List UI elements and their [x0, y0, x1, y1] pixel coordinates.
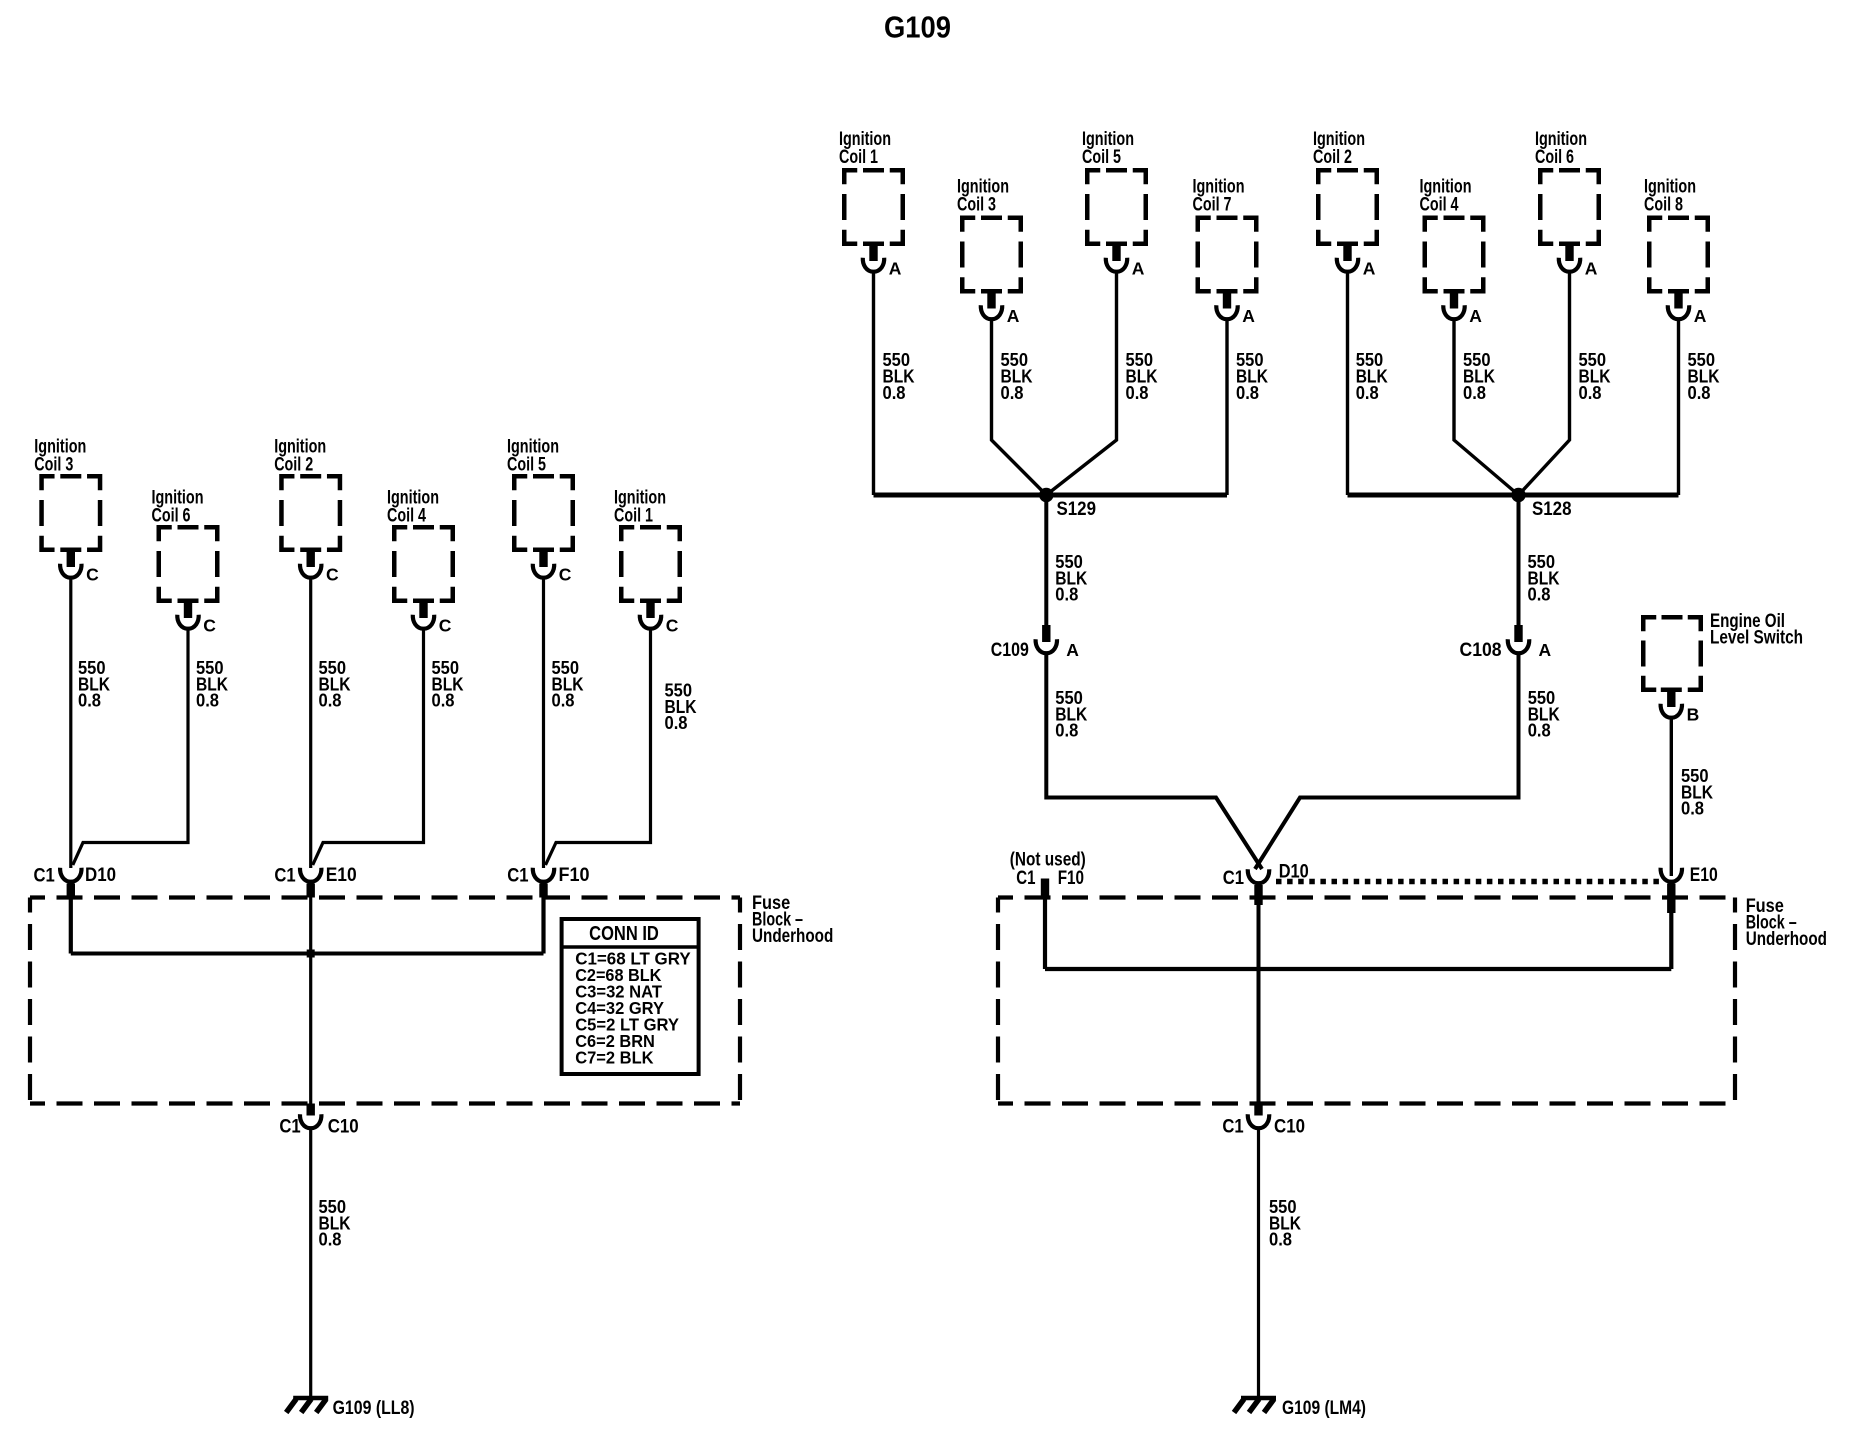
svg-text:Coil 6: Coil 6: [1535, 147, 1574, 168]
engine oil level switch pin stub: [1661, 688, 1682, 693]
ignition coil 1 (right) connector cup: [863, 258, 884, 272]
wire coil6-right to S128 (vertical+diagonal): [1519, 273, 1570, 496]
connector C1 E10 pin stub: [307, 884, 315, 898]
svg-text:Underhood: Underhood: [752, 926, 833, 947]
svg-text:A: A: [1007, 306, 1020, 326]
svg-text:0.8: 0.8: [1236, 382, 1259, 403]
svg-text:S129: S129: [1057, 499, 1097, 520]
svg-text:Coil 5: Coil 5: [1082, 147, 1121, 168]
svg-text:Coil 3: Coil 3: [34, 455, 73, 476]
ignition coil 3 (left) connector cup: [60, 564, 81, 578]
fuse block underhood (right) dashed outline: [998, 895, 1735, 899]
svg-text:E10: E10: [1690, 865, 1718, 886]
svg-text:Coil 2: Coil 2: [1313, 147, 1352, 168]
wire coil3-left to D10 (vertical): [69, 579, 72, 869]
connector C1 F10 pin stub: [539, 884, 547, 898]
ignition coil 7 (right) connector cup: [1216, 305, 1237, 319]
svg-text:Coil 4: Coil 4: [387, 506, 426, 527]
svg-text:C10: C10: [328, 1117, 359, 1138]
svg-text:A: A: [1242, 306, 1255, 326]
connector C1 F10 pin stub (right): [1041, 879, 1049, 900]
svg-text:CONN ID: CONN ID: [589, 923, 659, 945]
ignition coil 3 (left) box: [42, 476, 101, 550]
ground symbol G109 (LL8): [293, 1396, 328, 1401]
wire oil switch to E10: [1670, 716, 1673, 876]
svg-text:0.8: 0.8: [665, 712, 688, 733]
svg-text:A: A: [1469, 306, 1482, 326]
wire coil4-left to E10 (vertical+elbow): [313, 630, 424, 866]
ignition coil 5 (right) connector cup: [1106, 258, 1127, 272]
ignition coil 5 (left) connector cup: [533, 564, 554, 578]
svg-text:C: C: [666, 616, 679, 636]
wire D10 to C10 (inside right fuse block): [1257, 903, 1261, 1104]
svg-text:Level Switch: Level Switch: [1710, 628, 1803, 649]
ignition coil 3 (left) pin stub: [60, 548, 81, 553]
svg-text:Coil 7: Coil 7: [1193, 195, 1232, 216]
svg-text:A: A: [1132, 259, 1145, 279]
svg-text:C108: C108: [1460, 640, 1502, 661]
svg-text:0.8: 0.8: [1528, 584, 1551, 605]
svg-text:F10: F10: [1058, 868, 1084, 889]
svg-text:Coil 1: Coil 1: [839, 147, 878, 168]
connector C1 D10 cup (right fuse block): [1248, 869, 1269, 883]
svg-text:C109: C109: [991, 640, 1029, 661]
ignition coil 6 (right) pin stub: [1559, 242, 1580, 247]
svg-text:0.8: 0.8: [78, 690, 101, 711]
ignition coil 8 (right) connector cup: [1668, 305, 1689, 319]
wire E10 to bus (inside right fuse block): [1669, 909, 1673, 969]
svg-text:Underhood: Underhood: [1746, 929, 1827, 950]
svg-text:0.8: 0.8: [1579, 382, 1602, 403]
ignition coil 3 (right) pin stub: [981, 289, 1002, 294]
wire E10 to C10 (inside left fuse block): [309, 896, 312, 1104]
connector C109 pin stub: [1042, 625, 1050, 642]
ignition coil 8 (right) pin stub: [1668, 289, 1689, 294]
svg-text:Coil 8: Coil 8: [1644, 195, 1683, 216]
ignition coil 2 (left) connector cup: [300, 564, 321, 578]
svg-text:C1: C1: [1222, 1117, 1244, 1138]
ignition coil 8 (right) box: [1649, 218, 1708, 292]
CONN ID table box: [562, 919, 699, 1074]
wire coil5-left to F10 (vertical): [542, 579, 545, 869]
engine oil level switch connector cup: [1661, 704, 1682, 718]
svg-text:0.8: 0.8: [1126, 382, 1149, 403]
connector C108 pin stub: [1514, 625, 1522, 642]
svg-text:A: A: [1694, 306, 1707, 326]
ignition coil 2 (left) pin stub: [300, 548, 321, 553]
ignition coil 4 (left) connector cup: [413, 615, 434, 629]
svg-text:Coil 3: Coil 3: [957, 195, 996, 216]
ignition coil 3 (right) box: [962, 218, 1021, 292]
svg-text:C1: C1: [274, 866, 296, 887]
svg-text:C1: C1: [1016, 868, 1036, 889]
wire C10 to G109 LL8: [309, 1127, 312, 1397]
bus wire inside left fuse block: [71, 952, 544, 956]
connector C1 C10 cup (right): [1248, 1114, 1269, 1128]
svg-text:D10: D10: [85, 865, 116, 886]
wire S129 to C109: [1044, 495, 1048, 626]
svg-text:0.8: 0.8: [1001, 382, 1024, 403]
svg-text:0.8: 0.8: [1055, 720, 1078, 741]
connector C1 E10 cup (right fuse block): [1661, 868, 1682, 882]
ignition coil 5 (right) pin stub: [1106, 242, 1127, 247]
connector C1 D10 pin stub (right): [1254, 885, 1262, 905]
ignition coil 1 (left) connector cup: [640, 615, 661, 629]
svg-text:0.8: 0.8: [1356, 382, 1379, 403]
svg-text:S128: S128: [1532, 499, 1572, 520]
ignition coil 6 (left) box: [159, 527, 218, 601]
wire C108 down to merge: [1255, 652, 1519, 869]
wire coil2-left to E10 (vertical): [309, 579, 312, 869]
svg-text:E10: E10: [326, 865, 357, 886]
wire coil1-right to S129 bus: [872, 273, 875, 496]
svg-text:A: A: [1585, 259, 1598, 279]
svg-text:C1: C1: [279, 1117, 301, 1138]
wire C10 to G109 LM4: [1257, 1127, 1260, 1397]
svg-text:C: C: [86, 565, 99, 585]
connector C109 cup: [1036, 639, 1057, 653]
ignition coil 2 (right) box: [1318, 170, 1377, 244]
ignition coil 6 (left) connector cup: [177, 615, 198, 629]
svg-text:0.8: 0.8: [1055, 584, 1078, 605]
svg-text:G109: G109: [884, 10, 951, 45]
svg-text:C: C: [559, 565, 572, 585]
svg-text:A: A: [1363, 259, 1376, 279]
wire F10 to bus (inside right fuse block): [1043, 896, 1047, 969]
ignition coil 6 (left) pin stub: [178, 599, 199, 604]
splice S129 junction dot: [1039, 488, 1053, 502]
wire coil2-right to S128 bus: [1346, 273, 1349, 496]
svg-text:0.8: 0.8: [319, 1229, 342, 1250]
ignition coil 1 (right) box: [844, 170, 903, 244]
svg-text:B: B: [1687, 705, 1700, 725]
connector C1 D10 pin stub: [67, 884, 75, 898]
svg-text:C1: C1: [1223, 868, 1245, 889]
svg-text:A: A: [1539, 640, 1552, 660]
svg-text:C1: C1: [34, 866, 56, 887]
connector C1 E10 cup (left fuse block): [300, 868, 321, 882]
svg-text:0.8: 0.8: [1528, 720, 1551, 741]
ignition coil 6 (right) box: [1540, 170, 1599, 244]
svg-text:A: A: [889, 259, 902, 279]
svg-text:0.8: 0.8: [319, 690, 342, 711]
svg-text:0.8: 0.8: [883, 382, 906, 403]
svg-text:Coil 1: Coil 1: [614, 506, 653, 527]
fuse block underhood (left) dashed outline: [30, 895, 740, 899]
svg-text:C: C: [326, 565, 339, 585]
ignition coil 7 (right) box: [1198, 218, 1257, 292]
svg-text:C1: C1: [507, 866, 529, 887]
bus wire inside right fuse block: [1045, 967, 1671, 971]
wire coil5-right to S129 (vertical+diagonal): [1046, 273, 1116, 496]
connector C1 F10 cup (left fuse block): [533, 868, 554, 882]
ignition coil 4 (left) pin stub: [413, 599, 434, 604]
svg-text:G109 (LM4): G109 (LM4): [1282, 1398, 1366, 1419]
ignition coil 4 (left) box: [394, 527, 453, 601]
wire S128 to C108: [1517, 495, 1521, 626]
svg-text:D10: D10: [1279, 862, 1309, 883]
ignition coil 2 (right) connector cup: [1337, 258, 1358, 272]
svg-text:F10: F10: [559, 865, 590, 886]
wire coil6-left to D10 (vertical+elbow): [73, 630, 188, 866]
wire coil4-right to S128 (vertical+diagonal): [1454, 320, 1519, 495]
junction dot at E10/bus crossing: [307, 950, 315, 958]
ignition coil 1 (left) pin stub: [640, 599, 661, 604]
connector C1 C10 cup (left): [300, 1114, 321, 1128]
svg-text:0.8: 0.8: [1688, 382, 1711, 403]
connector C1 E10 pin stub (right): [1667, 884, 1675, 914]
ignition coil 5 (right) box: [1087, 170, 1146, 244]
bus wire S128: [1348, 493, 1679, 498]
wire D10 to bus (inside left fuse block): [69, 896, 73, 954]
ground symbol G109 (LM4): [1241, 1396, 1276, 1401]
ignition coil 4 (right) box: [1425, 218, 1484, 292]
bus wire S129: [874, 493, 1228, 498]
svg-text:Coil 2: Coil 2: [274, 455, 313, 476]
ignition coil 1 (right) pin stub: [863, 242, 884, 247]
ignition coil 2 (right) pin stub: [1337, 242, 1358, 247]
svg-text:A: A: [1066, 640, 1079, 660]
ignition coil 3 (right) connector cup: [981, 305, 1002, 319]
svg-text:0.8: 0.8: [1681, 798, 1704, 819]
ignition coil 4 (right) connector cup: [1443, 305, 1464, 319]
dotted wire D10 to E10 (not used path): [1276, 879, 1659, 885]
svg-text:0.8: 0.8: [432, 690, 455, 711]
ignition coil 5 (left) box: [514, 476, 573, 550]
ignition coil 5 (left) pin stub: [533, 548, 554, 553]
connector C1 C10 pin stub (left): [307, 1104, 315, 1116]
svg-text:C10: C10: [1274, 1117, 1305, 1138]
svg-text:G109 (LL8): G109 (LL8): [333, 1398, 415, 1419]
svg-text:Coil 5: Coil 5: [507, 455, 546, 476]
ignition coil 1 (left) box: [621, 527, 680, 601]
svg-text:Coil 4: Coil 4: [1420, 195, 1459, 216]
svg-text:0.8: 0.8: [1269, 1229, 1292, 1250]
wire F10 to bus (inside left fuse block): [541, 896, 545, 954]
ignition coil 6 (right) connector cup: [1559, 258, 1580, 272]
engine oil level switch box: [1643, 617, 1701, 690]
splice S128 junction dot: [1511, 488, 1525, 502]
ignition coil 2 (left) box: [281, 476, 340, 550]
wire C109 down to merge: [1046, 652, 1262, 869]
connector C108 cup: [1508, 639, 1529, 653]
ignition coil 7 (right) pin stub: [1217, 289, 1238, 294]
connector C1 D10 cup (left fuse block): [60, 868, 81, 882]
svg-text:0.8: 0.8: [552, 690, 575, 711]
svg-text:0.8: 0.8: [1463, 382, 1486, 403]
svg-text:C: C: [439, 616, 452, 636]
svg-text:C: C: [203, 616, 216, 636]
wire coil8-right to S128 bus: [1677, 320, 1680, 495]
wire coil3-right to S129 (vertical+diagonal): [992, 320, 1047, 495]
svg-text:C7=2 BLK: C7=2 BLK: [575, 1047, 654, 1067]
connector C1 C10 pin stub (right): [1254, 1104, 1262, 1116]
wire coil1-left to F10 (vertical+elbow): [546, 630, 651, 866]
svg-text:0.8: 0.8: [196, 690, 219, 711]
wire coil7-right to S129 bus: [1225, 320, 1228, 495]
ignition coil 4 (right) pin stub: [1444, 289, 1465, 294]
svg-text:Coil 6: Coil 6: [152, 506, 191, 527]
